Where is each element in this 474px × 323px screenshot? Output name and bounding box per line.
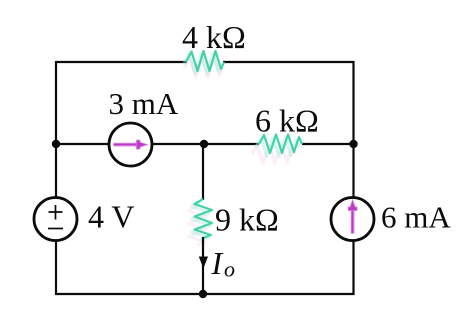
wire middle horizontal right segment (6k to right node)	[302, 143, 354, 145]
svg-text:4 V: 4 V	[88, 199, 135, 235]
wire middle vertical (9k to bottom)	[202, 237, 204, 295]
resistor 9 kOhm zigzag ghost stroke	[192, 202, 210, 241]
svg-text:6 kΩ: 6 kΩ	[255, 103, 319, 139]
node B (center middle)	[200, 140, 208, 148]
node C (right middle)	[349, 140, 357, 148]
resistor 4 kOhm zigzag ghost stroke	[184, 54, 222, 74]
svg-text:6 mA: 6 mA	[381, 200, 451, 235]
voltage source plus sign	[49, 205, 63, 220]
resistor 6 kOhm pink ghost	[252, 145, 295, 164]
wire right vertical (6mA source to bottom)	[352, 240, 354, 295]
wire right vertical (top to 6mA source)	[352, 61, 354, 198]
wire top-left horizontal (to 4k resistor)	[56, 61, 187, 63]
resistor 4 kOhm pink ghost	[185, 57, 223, 77]
current source 3 mA circle	[109, 123, 152, 166]
current arrow Io (down triangle)	[199, 257, 208, 269]
voltage source 4V circle	[34, 198, 77, 241]
current source 6 mA arrow halo	[350, 207, 355, 234]
wire left vertical (4V source to bottom)	[55, 240, 57, 295]
current source 6 mA arrow	[351, 207, 353, 234]
current source 3 mA arrowhead	[137, 140, 148, 149]
resistor 9 kOhm pink ghost	[189, 206, 207, 245]
wire left vertical (top to 4V source)	[55, 61, 57, 198]
voltage source minus sign	[48, 228, 63, 230]
svg-text:o: o	[224, 257, 235, 282]
resistor 6 kOhm zigzag ghost stroke	[256, 138, 299, 157]
svg-text:4 kΩ: 4 kΩ	[182, 19, 246, 55]
current source 3 mA arrow	[114, 143, 141, 145]
node D (bottom center)	[199, 290, 207, 298]
svg-text:I: I	[211, 245, 224, 281]
wire middle vertical (node to 9k)	[202, 144, 204, 200]
svg-text:3 mA: 3 mA	[109, 86, 179, 121]
wire bottom horizontal	[55, 293, 355, 295]
wire middle horizontal left segment	[56, 143, 110, 145]
wire top-right horizontal (from 4k resistor)	[223, 61, 354, 63]
current source 6 mA circle	[331, 198, 374, 241]
svg-text:9 kΩ: 9 kΩ	[215, 201, 279, 237]
current source 6 mA arrowhead	[348, 200, 357, 211]
current source 3 mA arrow halo	[114, 142, 141, 147]
resistor 4 kOhm zigzag	[186, 51, 224, 71]
resistor 6 kOhm zigzag	[259, 135, 302, 154]
wire middle horizontal center segment (3mA to node)	[152, 143, 259, 145]
resistor 9 kOhm zigzag	[195, 199, 213, 238]
node A (left middle)	[52, 140, 60, 148]
